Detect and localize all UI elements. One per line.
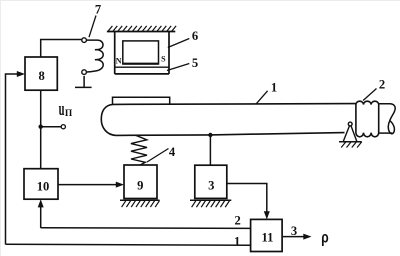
svg-text:11: 11: [262, 231, 274, 245]
svg-text:3: 3: [291, 224, 297, 238]
svg-text:1: 1: [234, 234, 240, 248]
svg-text:6: 6: [192, 29, 198, 43]
svg-text:5: 5: [192, 56, 198, 70]
svg-text:П: П: [65, 109, 73, 119]
svg-text:3: 3: [208, 179, 214, 193]
svg-text:S: S: [161, 55, 166, 64]
svg-text:2: 2: [234, 214, 240, 228]
svg-text:2: 2: [379, 77, 385, 91]
svg-text:8: 8: [38, 69, 44, 83]
svg-text:9: 9: [137, 179, 143, 193]
svg-text:ρ: ρ: [321, 228, 329, 246]
svg-text:7: 7: [95, 3, 101, 17]
svg-text:N: N: [116, 57, 122, 66]
svg-text:10: 10: [37, 180, 50, 194]
svg-text:1: 1: [271, 81, 277, 95]
svg-text:4: 4: [169, 145, 176, 159]
